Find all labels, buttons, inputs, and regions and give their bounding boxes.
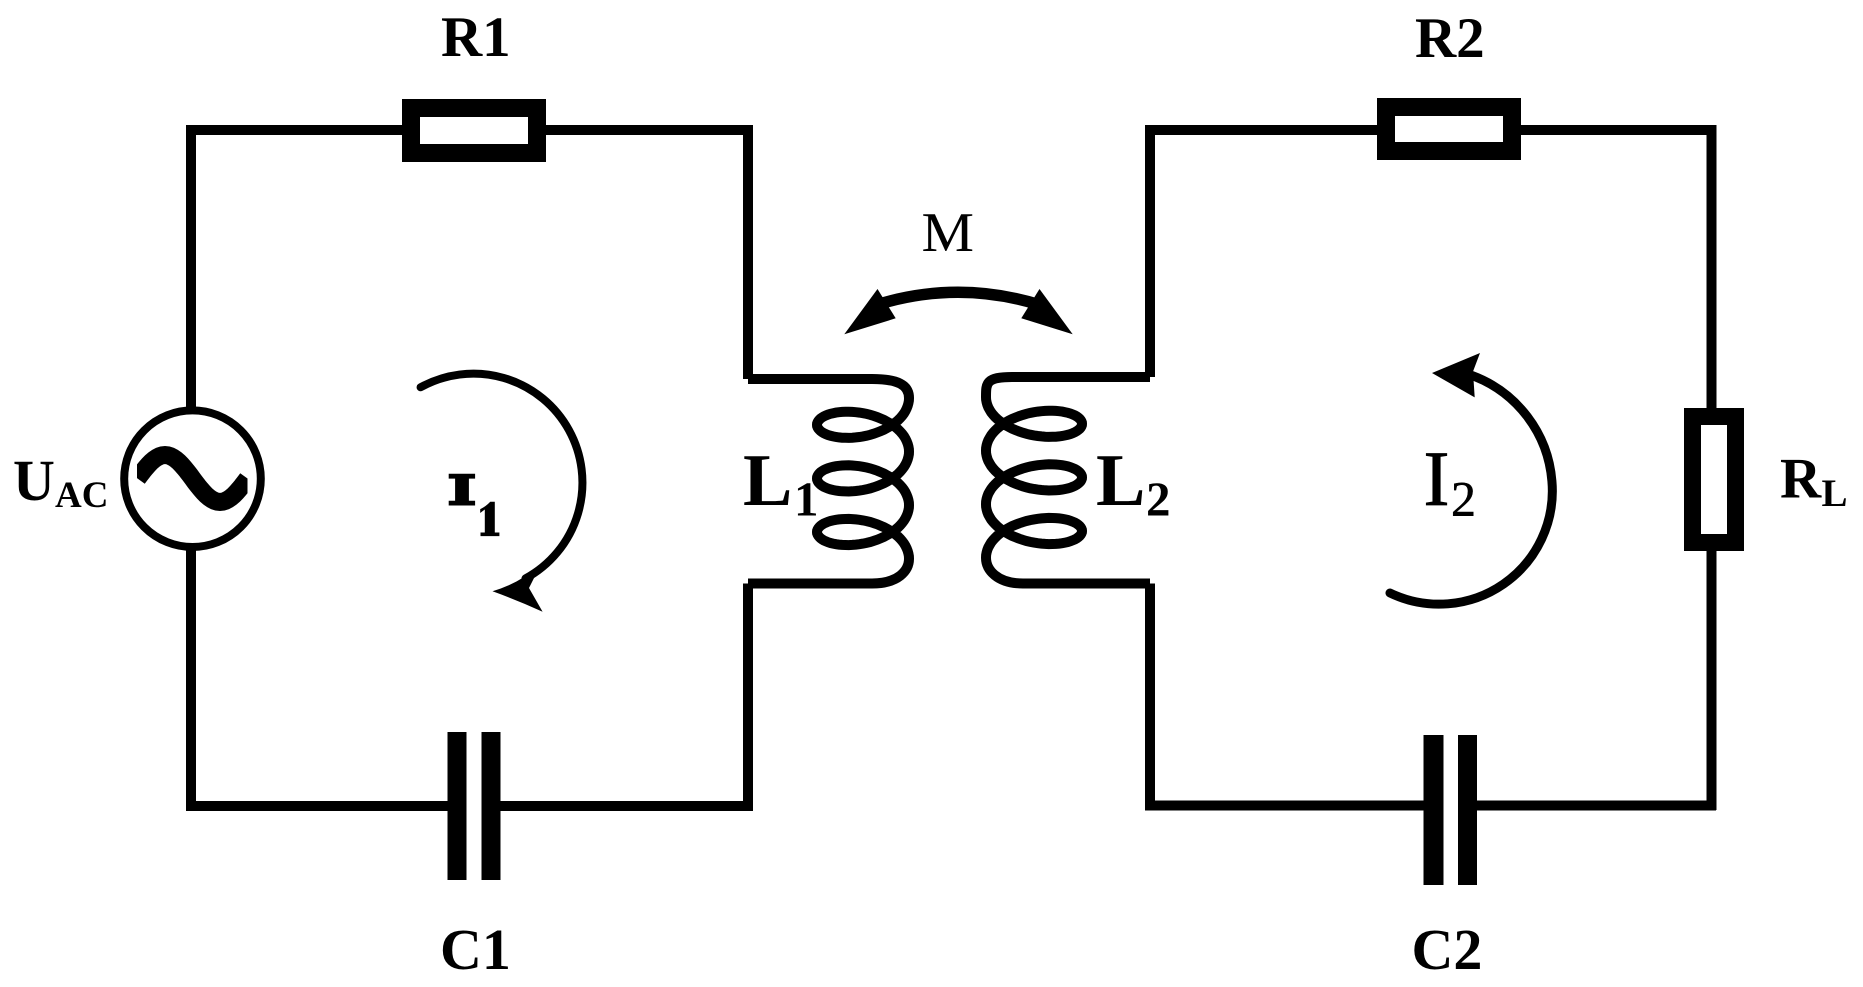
resistor R1 xyxy=(402,99,546,162)
current arrow I1 arc (clockwise) xyxy=(421,374,583,579)
inductor L1 (primary coil) xyxy=(748,379,909,584)
mutual inductance M arrow right head xyxy=(1021,289,1072,334)
resistor RL (load) xyxy=(1684,408,1744,551)
resistor R2 xyxy=(1377,98,1521,160)
wire: left loop left vertical through UAC xyxy=(186,125,196,806)
capacitor C2 plate 2 xyxy=(1458,735,1477,885)
mutual inductance M arrow left head xyxy=(844,289,895,334)
capacitor C2 plate 1 xyxy=(1424,735,1444,885)
svg-text:L: L xyxy=(1822,472,1848,515)
wire: left loop top (UAC to R1 to L1 branch) xyxy=(191,125,748,135)
capacitor C1 plate 1 xyxy=(448,732,467,880)
current arrow I2 arc (counter-clockwise) xyxy=(1390,376,1552,605)
wire: right loop bottom left segment (to C2 left plate) xyxy=(1145,801,1434,811)
svg-text:L: L xyxy=(1096,440,1145,522)
label I1 subscript 1 xyxy=(481,502,499,535)
current arrow I1 head xyxy=(493,565,543,612)
wire: right loop left vertical upper (top wire down to L2) xyxy=(1145,125,1155,377)
mutual inductance M arrow arc xyxy=(876,292,1040,305)
svg-text:2: 2 xyxy=(1146,472,1171,527)
wire: left loop right vertical lower (L1 down to bottom wire) xyxy=(743,584,753,812)
svg-text:R1: R1 xyxy=(441,6,511,69)
svg-text:U: U xyxy=(13,448,55,513)
capacitor C1 plate 2 xyxy=(482,732,501,880)
svg-text:AC: AC xyxy=(55,475,108,516)
wire: right loop left vertical lower (L2 down to bottom wire) xyxy=(1145,584,1155,811)
svg-text:L: L xyxy=(743,440,792,522)
wire: right loop bottom right segment (C2 right plate to RL branch) xyxy=(1467,801,1716,811)
svg-text:1: 1 xyxy=(794,472,819,527)
current arrow I2 head xyxy=(1432,353,1480,397)
wire: right loop right vertical lower (RL down to bottom wire) xyxy=(1707,547,1717,810)
wire: right loop top (L2 branch to R2 to RL) xyxy=(1150,125,1712,135)
wire: left loop bottom left segment (to C1 left plate) xyxy=(186,801,457,811)
svg-text:M: M xyxy=(922,202,975,264)
wire: left loop right vertical upper (top wire down to L1) xyxy=(743,125,753,379)
svg-text:R: R xyxy=(1780,448,1822,511)
wire: right loop right vertical upper (R2 down to RL) xyxy=(1707,125,1717,412)
svg-text:2: 2 xyxy=(1451,471,1476,527)
svg-text:I: I xyxy=(1424,435,1450,522)
svg-text:C2: C2 xyxy=(1412,917,1483,982)
svg-text:C1: C1 xyxy=(440,917,511,982)
wire: left loop bottom right segment (C1 right plate to L1 branch) xyxy=(491,801,753,811)
svg-text:R2: R2 xyxy=(1415,7,1485,70)
label I1 (capital I drawn as I-beam shape) xyxy=(449,474,475,506)
inductor L2 (secondary coil) xyxy=(986,377,1150,584)
AC source UAC circle xyxy=(124,410,261,547)
